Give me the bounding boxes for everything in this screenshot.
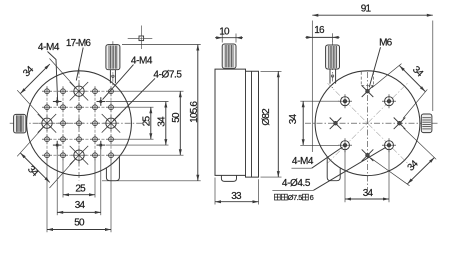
svg-text:34: 34 (157, 116, 168, 127)
svg-text:10: 10 (219, 26, 230, 37)
svg-text:Ø7.5: Ø7.5 (288, 193, 303, 202)
svg-text:6: 6 (310, 193, 314, 202)
svg-text:16: 16 (314, 25, 325, 36)
svg-text:4-M4: 4-M4 (131, 56, 153, 67)
svg-text:50: 50 (74, 218, 85, 229)
svg-text:34: 34 (288, 114, 299, 125)
svg-text:34: 34 (75, 200, 86, 211)
svg-text:25: 25 (75, 183, 86, 194)
svg-text:105.6: 105.6 (189, 101, 200, 123)
svg-text:Ø82: Ø82 (261, 108, 272, 126)
svg-text:17-M6: 17-M6 (66, 38, 92, 49)
svg-text:4-Ø4.5: 4-Ø4.5 (282, 178, 311, 189)
svg-text:M6: M6 (379, 38, 393, 49)
svg-text:50: 50 (171, 112, 182, 123)
svg-text:4-M4: 4-M4 (292, 156, 314, 167)
svg-text:33: 33 (231, 191, 242, 202)
svg-text:91: 91 (361, 4, 372, 15)
svg-text:34: 34 (363, 188, 374, 199)
svg-text:25: 25 (142, 116, 153, 127)
svg-text:4-M4: 4-M4 (38, 42, 60, 53)
svg-text:4-Ø7.5: 4-Ø7.5 (153, 69, 182, 80)
